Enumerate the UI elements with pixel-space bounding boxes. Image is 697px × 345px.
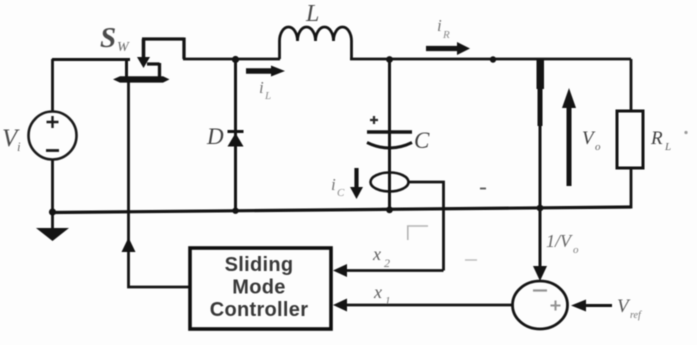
arrow iR bbox=[426, 42, 470, 55]
svg-text:C: C bbox=[337, 187, 345, 199]
wire x2 into controller bbox=[333, 264, 444, 277]
label Vref bbox=[617, 296, 642, 321]
svg-text:2: 2 bbox=[384, 256, 390, 270]
wire top rail right (inductor to top-right corner) bbox=[350, 58, 631, 61]
label C bbox=[414, 128, 430, 153]
inductor L bbox=[280, 27, 352, 59]
label 1/Vo bbox=[546, 231, 579, 256]
svg-text:i: i bbox=[331, 175, 336, 194]
label Vi bbox=[2, 125, 21, 154]
artifact gray dash bbox=[465, 259, 477, 261]
arrow Vref input bbox=[571, 300, 612, 312]
node G (diode bottom) bbox=[232, 208, 238, 214]
label iR bbox=[437, 16, 450, 41]
wire gate control line (switch down to controller) bbox=[129, 81, 191, 287]
svg-text:S: S bbox=[100, 22, 116, 54]
svg-text:L: L bbox=[664, 141, 671, 153]
svg-text:R: R bbox=[650, 128, 663, 149]
node E (rail / sense crossing) bbox=[537, 205, 544, 212]
wire sensor output (to x2) bbox=[409, 182, 444, 271]
wire x1 into controller bbox=[333, 299, 513, 312]
artifact gray dot right bbox=[684, 131, 687, 134]
artifact dark dash bbox=[480, 188, 486, 190]
label RL bbox=[650, 128, 671, 153]
label iL bbox=[259, 78, 271, 102]
diode D bbox=[228, 132, 244, 147]
artifact gray corner bbox=[407, 226, 428, 240]
node A (Vi / ground junction) bbox=[49, 208, 56, 215]
resistor RL bbox=[617, 111, 643, 168]
svg-text:V: V bbox=[582, 128, 596, 149]
wire top rail mid (switch to inductor) bbox=[183, 58, 280, 61]
svg-text:ref: ref bbox=[630, 310, 642, 321]
transistor SW (switch) bbox=[52, 38, 184, 83]
svg-text:1: 1 bbox=[385, 295, 391, 307]
wire bottom rail bbox=[52, 207, 631, 213]
svg-text:i: i bbox=[259, 78, 264, 97]
svg-text:L: L bbox=[264, 90, 271, 102]
label SW bbox=[100, 22, 130, 55]
svg-text:i: i bbox=[17, 139, 21, 154]
label x2 bbox=[372, 244, 390, 270]
arrow iC bbox=[350, 168, 363, 199]
svg-text:x: x bbox=[373, 282, 382, 302]
ground bbox=[36, 212, 69, 241]
wire Vo sense line (thick) bbox=[537, 59, 545, 268]
svg-text:Sliding: Sliding bbox=[225, 254, 294, 276]
wire diode branch bbox=[234, 59, 237, 212]
svg-text:Controller: Controller bbox=[210, 299, 309, 321]
arrow iL bbox=[246, 66, 285, 77]
arrow Vo bbox=[562, 88, 576, 186]
node C (capacitor top junction) bbox=[386, 56, 393, 63]
label iC bbox=[331, 175, 345, 199]
label D bbox=[206, 124, 224, 149]
svg-text:o: o bbox=[595, 141, 601, 153]
capacitor C bbox=[367, 116, 412, 148]
svg-text:V: V bbox=[617, 296, 631, 317]
svg-text:Mode: Mode bbox=[232, 277, 285, 299]
wire capacitor branch bbox=[388, 59, 391, 211]
wire right edge bbox=[630, 59, 633, 111]
label x1 bbox=[373, 282, 391, 307]
node F (cap bottom) bbox=[386, 206, 393, 213]
node D (output junction dot) bbox=[490, 56, 496, 62]
svg-text:1/V: 1/V bbox=[546, 231, 573, 251]
label Vo bbox=[582, 128, 601, 153]
svg-text:C: C bbox=[414, 128, 430, 153]
svg-text:W: W bbox=[117, 40, 130, 55]
controller box bbox=[190, 248, 331, 329]
label L bbox=[305, 1, 319, 27]
svg-text:i: i bbox=[437, 16, 442, 35]
summing junction U1 bbox=[513, 281, 568, 329]
svg-text:R: R bbox=[442, 29, 450, 41]
gate arrow up bbox=[122, 238, 136, 253]
svg-text:o: o bbox=[573, 244, 579, 256]
current sensor ellipse bbox=[371, 173, 409, 192]
svg-text:D: D bbox=[206, 124, 224, 149]
svg-text:L: L bbox=[305, 1, 319, 27]
svg-text:x: x bbox=[372, 244, 381, 264]
node B (diode top junction) bbox=[232, 56, 239, 63]
arrow into summer (down) bbox=[533, 266, 547, 281]
voltage source Vi bbox=[29, 59, 77, 214]
